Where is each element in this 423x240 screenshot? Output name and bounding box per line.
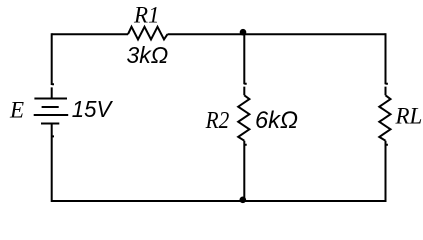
svg-text:6kΩ: 6kΩ xyxy=(255,107,298,134)
svg-text:E: E xyxy=(9,98,24,123)
svg-text:15V: 15V xyxy=(72,96,114,122)
resistor RL xyxy=(379,95,390,140)
wire right lower lead xyxy=(386,141,388,202)
wire left upper lead xyxy=(52,33,54,98)
wire top right segment xyxy=(168,33,386,35)
wire bottom xyxy=(52,200,386,202)
wire middle branch lower lead xyxy=(244,141,246,202)
wire middle branch upper lead xyxy=(244,33,246,95)
junction node top xyxy=(240,29,247,36)
resistor R2 xyxy=(238,95,249,140)
svg-text:3kΩ: 3kΩ xyxy=(127,42,169,68)
wire right upper lead xyxy=(386,33,388,95)
junction node bottom xyxy=(240,197,247,204)
svg-text:R2: R2 xyxy=(205,107,229,134)
svg-text:RL: RL xyxy=(395,104,423,129)
battery E plates xyxy=(34,99,68,124)
wire left lower lead xyxy=(52,124,54,203)
wire top left segment xyxy=(52,33,128,35)
svg-text:R1: R1 xyxy=(133,3,160,28)
resistor R1 xyxy=(128,27,168,40)
